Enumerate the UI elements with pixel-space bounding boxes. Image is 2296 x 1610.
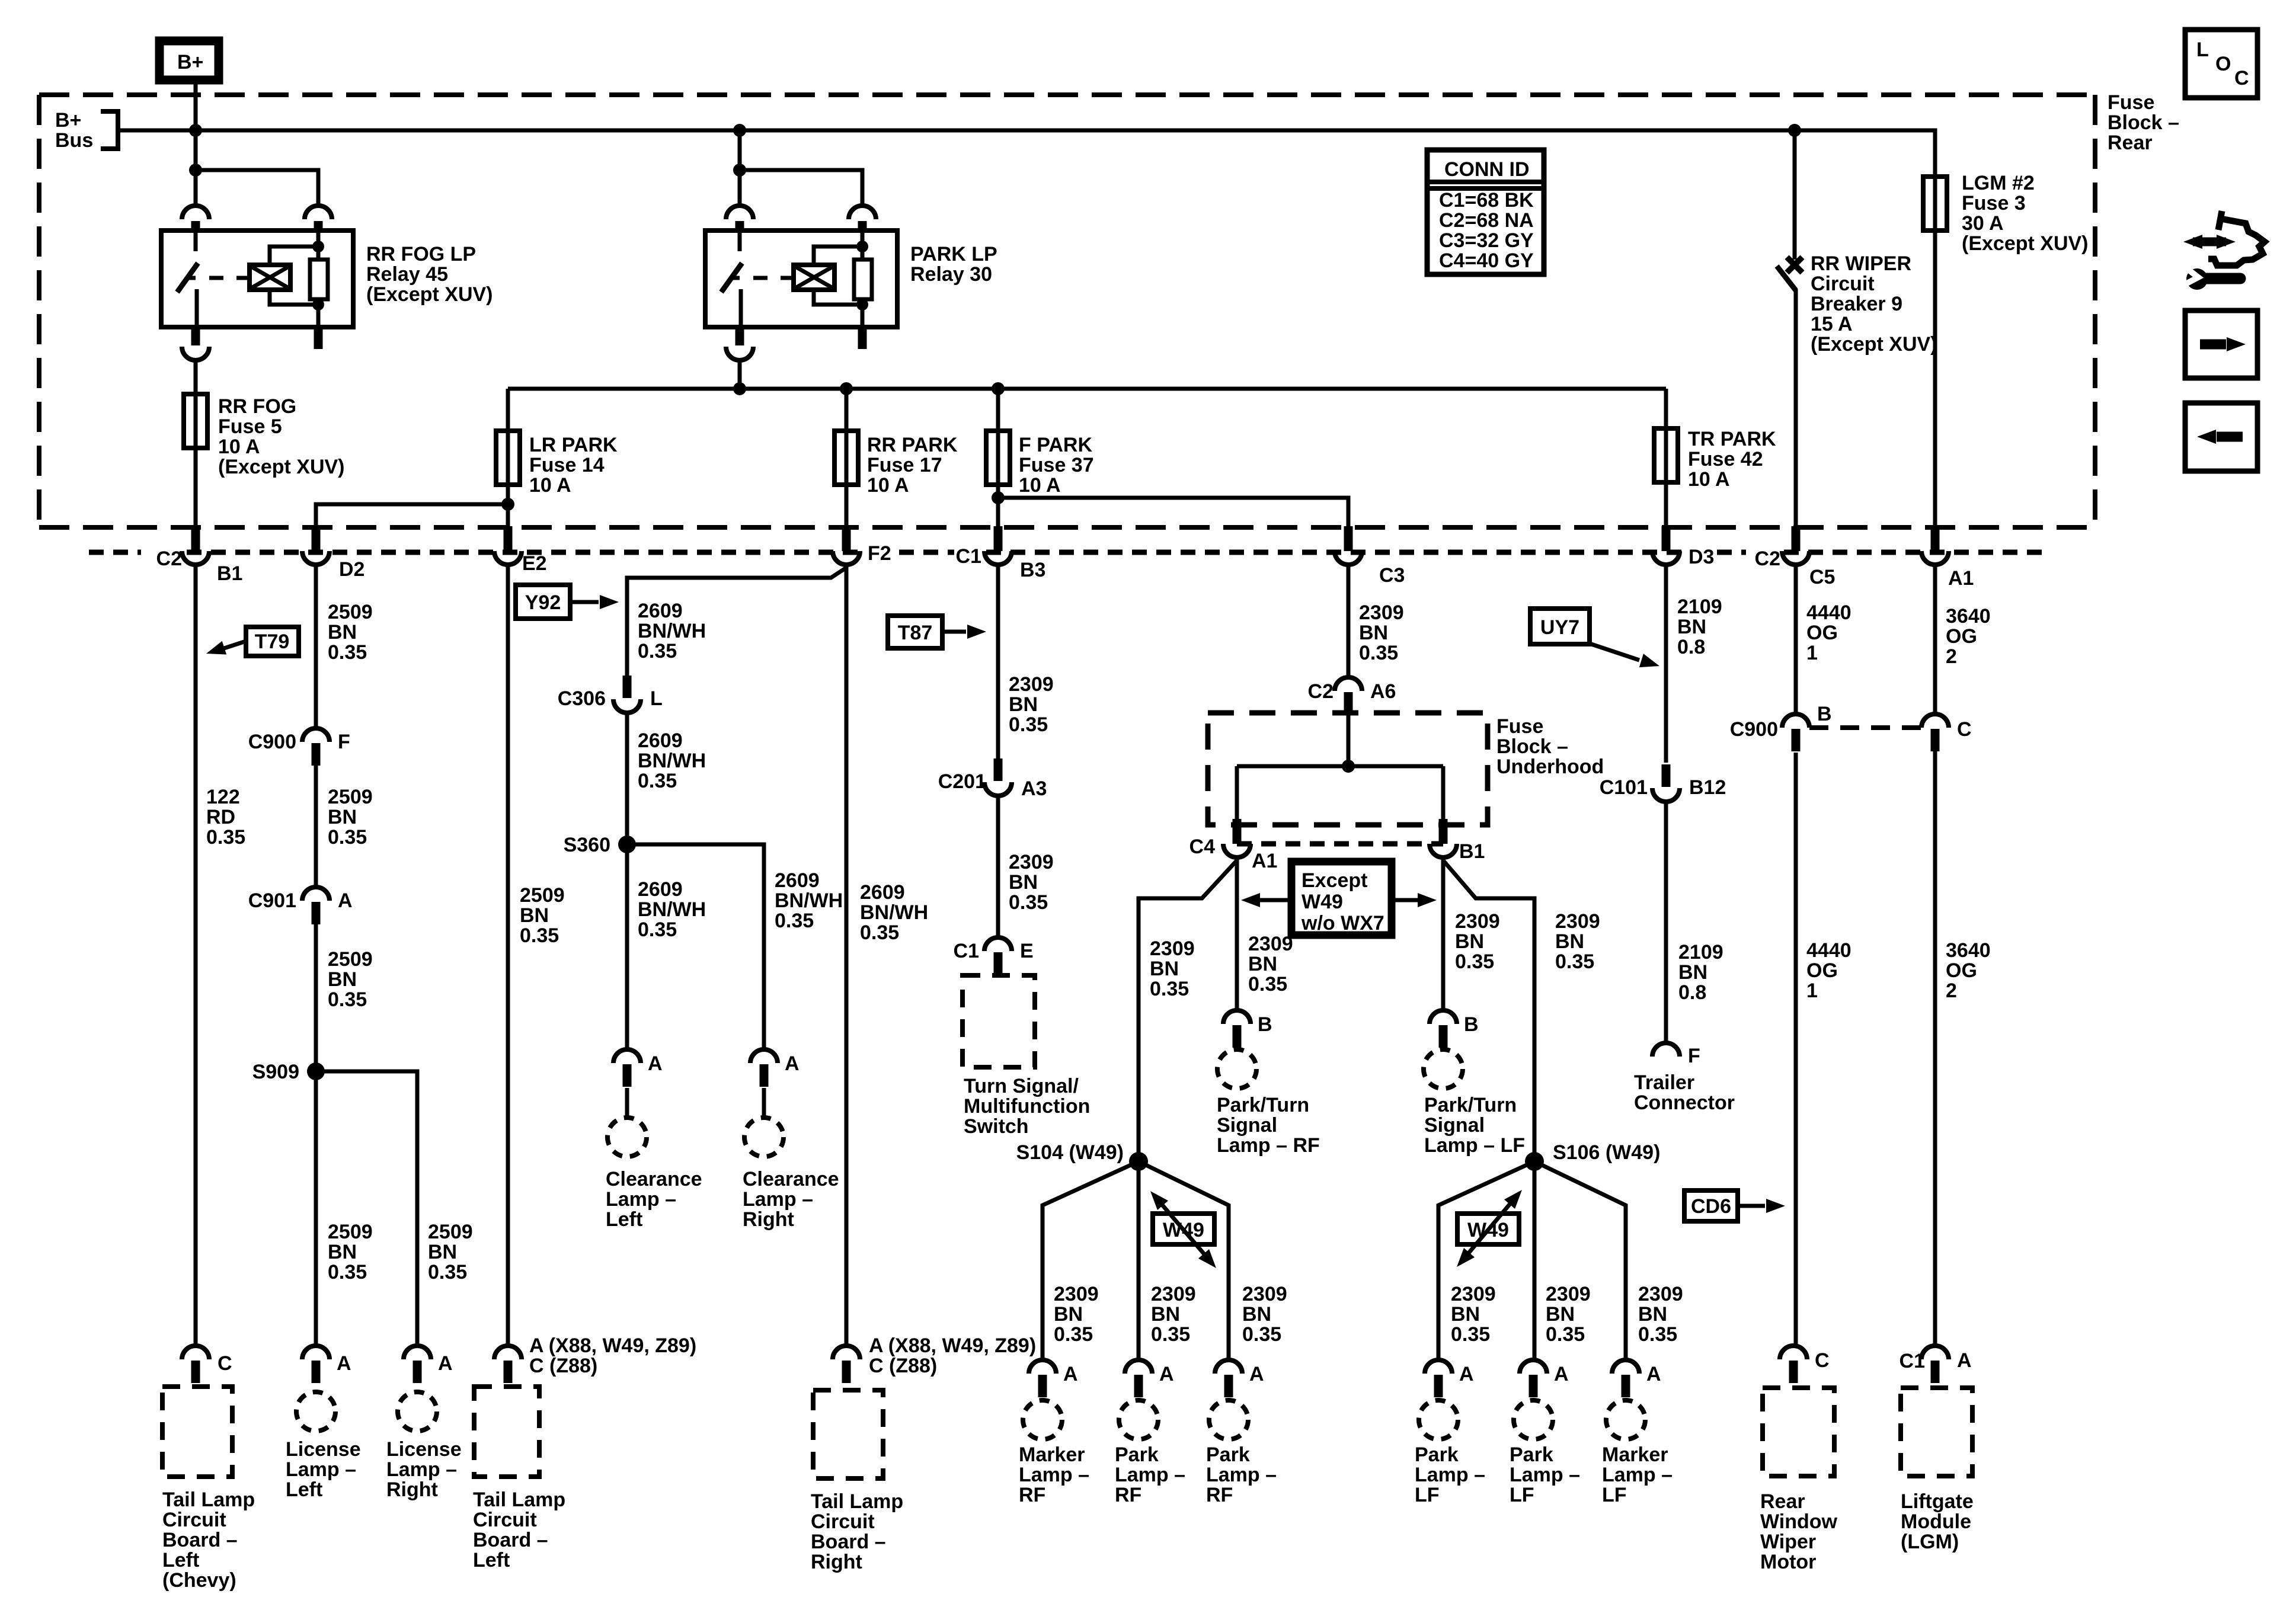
wire branch to C3 <box>998 498 1348 526</box>
svg-text:L: L <box>650 687 663 710</box>
svg-text:Lamp – RF: Lamp – RF <box>1217 1134 1320 1157</box>
svg-text:2309: 2309 <box>1054 1283 1099 1305</box>
svg-text:BN/WH: BN/WH <box>638 620 706 642</box>
svg-text:C900: C900 <box>1730 718 1778 741</box>
wire A6 into underhood <box>1347 715 1351 766</box>
wire B3 down <box>996 565 1000 763</box>
connector pin D3 <box>1652 526 1680 565</box>
svg-text:C5: C5 <box>1809 566 1835 588</box>
fuse LR PARK Fuse 14 <box>496 431 520 485</box>
W49 arrow right <box>1464 1198 1515 1259</box>
svg-text:Trailer: Trailer <box>1634 1071 1694 1094</box>
svg-text:Park: Park <box>1510 1443 1553 1466</box>
connector A liftgate <box>1921 1346 1949 1383</box>
svg-text:C4: C4 <box>1189 836 1216 858</box>
svg-text:RR FOG: RR FOG <box>218 395 296 418</box>
svg-text:C2: C2 <box>156 548 182 570</box>
svg-text:2309: 2309 <box>1242 1283 1287 1305</box>
svg-text:0.35: 0.35 <box>328 826 367 849</box>
svg-text:LGM #2: LGM #2 <box>1962 172 2035 194</box>
svg-text:Relay 45: Relay 45 <box>366 263 448 286</box>
wire underhood left leg <box>1235 766 1239 825</box>
wire fuse14 down <box>506 485 510 526</box>
node bus-breaker <box>1788 124 1801 137</box>
svg-text:BN/WH: BN/WH <box>638 898 706 921</box>
wire rail to fuse37 <box>996 389 1000 431</box>
svg-text:0.35: 0.35 <box>775 910 814 932</box>
wire fuse5 to B1 <box>194 448 198 526</box>
connector tail lamp right <box>833 1346 860 1383</box>
wire rail to fuse14 <box>506 389 510 431</box>
svg-text:2609: 2609 <box>860 881 905 904</box>
wire A1 down <box>1933 565 1937 714</box>
wire E2 down <box>506 565 510 1346</box>
connector pin C5 <box>1782 526 1809 565</box>
svg-text:Board –: Board – <box>473 1529 548 1551</box>
svg-text:Lamp –: Lamp – <box>1510 1464 1580 1486</box>
svg-text:Fuse 37: Fuse 37 <box>1019 454 1094 476</box>
wire C900B down <box>1794 753 1798 1346</box>
wire D2 down <box>314 565 318 728</box>
wire S104 middle branch <box>1137 1161 1141 1361</box>
wire rail to fuse17 <box>845 389 849 431</box>
svg-text:(Except XUV): (Except XUV) <box>1811 333 1937 356</box>
svg-text:BN/WH: BN/WH <box>860 901 928 924</box>
svg-text:BN: BN <box>1638 1303 1667 1326</box>
connector C900 F <box>302 728 330 766</box>
wire rail to fuse42 <box>1664 389 1668 428</box>
wire fuse17 to F2 <box>845 485 849 526</box>
splice S360 <box>618 836 636 853</box>
svg-text:3640: 3640 <box>1946 605 1991 628</box>
svg-text:Switch: Switch <box>964 1115 1029 1138</box>
node rail-fuse37 <box>992 382 1005 395</box>
svg-text:B+: B+ <box>55 109 81 132</box>
svg-text:2509: 2509 <box>328 786 373 808</box>
svg-text:Right: Right <box>386 1478 438 1501</box>
svg-text:0.35: 0.35 <box>328 1261 367 1283</box>
svg-text:Fuse 42: Fuse 42 <box>1688 448 1763 470</box>
svg-text:A: A <box>1554 1363 1569 1385</box>
svg-text:C (Z88): C (Z88) <box>869 1355 937 1377</box>
svg-text:0.35: 0.35 <box>1248 973 1287 996</box>
svg-text:w/o WX7: w/o WX7 <box>1301 912 1384 934</box>
wire to clearance right bulb <box>762 1088 766 1118</box>
Fuse Block - Underhood dashed box <box>1208 713 1488 825</box>
fuse LGM #2 Fuse 3 <box>1923 177 1947 231</box>
svg-text:Fuse: Fuse <box>2108 91 2154 114</box>
svg-text:2309: 2309 <box>1248 933 1293 955</box>
svg-text:T79: T79 <box>255 630 290 653</box>
svg-text:122: 122 <box>206 786 240 808</box>
svg-text:A1: A1 <box>1252 850 1277 872</box>
svg-text:BN: BN <box>1054 1303 1083 1326</box>
svg-text:B1: B1 <box>217 562 242 585</box>
relay PARK LP Relay 30 <box>705 206 897 360</box>
svg-text:RD: RD <box>206 806 235 828</box>
svg-text:10 A: 10 A <box>218 436 260 458</box>
svg-text:Right: Right <box>811 1551 862 1573</box>
wire S104 left branch <box>1043 1161 1139 1361</box>
svg-text:Wiper: Wiper <box>1760 1531 1816 1553</box>
svg-text:(Except XUV): (Except XUV) <box>218 456 345 478</box>
svg-text:Lamp –: Lamp – <box>1206 1464 1277 1486</box>
svg-text:A: A <box>648 1052 663 1075</box>
connector A park LF 2 <box>1520 1360 1547 1397</box>
svg-text:Block –: Block – <box>2108 111 2179 134</box>
svg-text:TR PARK: TR PARK <box>1688 428 1776 450</box>
svg-text:BN: BN <box>1009 871 1038 894</box>
svg-text:2509: 2509 <box>428 1221 473 1243</box>
svg-text:2309: 2309 <box>1009 673 1054 696</box>
underhood dotted connector line <box>1237 841 1443 847</box>
Except W49 right arrow <box>1392 898 1418 902</box>
Park Lamp LF bulb 1 <box>1419 1400 1458 1439</box>
wire C901 to S909 <box>314 924 318 1071</box>
svg-text:0.35: 0.35 <box>638 770 677 792</box>
svg-text:Circuit: Circuit <box>1811 273 1875 295</box>
connector pin B1 right <box>1430 819 1457 857</box>
svg-text:Left: Left <box>473 1549 510 1571</box>
svg-text:License: License <box>386 1438 462 1461</box>
svg-text:Left: Left <box>606 1208 642 1231</box>
connector A clearance left <box>613 1049 641 1087</box>
svg-text:1: 1 <box>1806 642 1818 664</box>
connector pin A1r <box>1921 526 1949 565</box>
svg-text:BN/WH: BN/WH <box>638 750 706 772</box>
svg-text:Rear: Rear <box>1760 1490 1805 1513</box>
svg-text:A: A <box>1063 1363 1078 1385</box>
connector pin E2 <box>494 526 522 565</box>
svg-text:Circuit: Circuit <box>162 1509 226 1531</box>
LOC legend box <box>2185 30 2257 98</box>
svg-text:0.35: 0.35 <box>638 918 677 941</box>
svg-text:Marker: Marker <box>1602 1443 1668 1466</box>
svg-text:BN: BN <box>1009 693 1038 716</box>
svg-text:0.35: 0.35 <box>1242 1323 1281 1346</box>
Park Lamp RF bulb 2 <box>1209 1400 1248 1439</box>
node rail-relay30 <box>733 382 746 395</box>
svg-text:2309: 2309 <box>1359 601 1404 624</box>
svg-text:B3: B3 <box>1020 559 1045 581</box>
wire to clearance left bulb <box>625 1088 629 1118</box>
connector A park RF 2 <box>1215 1360 1242 1397</box>
wire A1 diag to S104 <box>1139 860 1237 1161</box>
connector pin C3 <box>1335 526 1362 565</box>
svg-text:0.8: 0.8 <box>1677 636 1705 658</box>
relay RR FOG LP Relay 45 <box>161 206 353 360</box>
svg-text:C306: C306 <box>558 687 606 710</box>
svg-text:D2: D2 <box>339 558 364 581</box>
svg-text:0.35: 0.35 <box>1638 1323 1677 1346</box>
svg-text:10 A: 10 A <box>867 474 909 497</box>
underhood bus bar <box>1237 764 1443 769</box>
svg-text:Lamp –: Lamp – <box>1019 1464 1089 1486</box>
node relay30 branch <box>733 164 746 177</box>
connector A license right <box>404 1346 431 1383</box>
svg-text:0.35: 0.35 <box>1359 642 1398 664</box>
svg-text:Connector: Connector <box>1634 1092 1735 1114</box>
svg-text:OG: OG <box>1806 622 1838 644</box>
Park Lamp LF bulb 2 <box>1514 1400 1553 1439</box>
svg-text:LF: LF <box>1602 1484 1627 1506</box>
svg-text:(Chevy): (Chevy) <box>162 1569 236 1592</box>
svg-text:Right: Right <box>743 1208 794 1231</box>
wire S104 right branch <box>1139 1161 1229 1361</box>
svg-text:Y92: Y92 <box>525 591 561 614</box>
svg-text:C2=68 NA: C2=68 NA <box>1439 209 1534 232</box>
svg-text:A (X88, W49, Z89): A (X88, W49, Z89) <box>529 1334 696 1357</box>
Clearance Lamp Left bulb <box>607 1118 647 1157</box>
svg-text:Left: Left <box>286 1478 322 1501</box>
wire F2 jog to clearance <box>627 568 846 676</box>
wire S106 right branch <box>1534 1161 1626 1361</box>
wire C101 to trailer <box>1664 802 1668 1043</box>
svg-text:Fuse 17: Fuse 17 <box>867 454 942 476</box>
wire fuse3 to A1 <box>1933 231 1937 526</box>
Park Lamp RF bulb 1 <box>1119 1400 1158 1439</box>
svg-text:E2: E2 <box>522 552 547 575</box>
wire branch to D2 <box>316 504 508 526</box>
svg-text:L: L <box>2196 39 2209 61</box>
svg-text:CD6: CD6 <box>1691 1195 1731 1218</box>
node underhood split <box>1342 760 1355 773</box>
wire S360 branch right <box>627 844 764 1049</box>
svg-text:0.35: 0.35 <box>1150 978 1189 1000</box>
C900 B-C dashed link <box>1809 725 1921 730</box>
svg-text:Lamp –: Lamp – <box>1602 1464 1673 1486</box>
connector pin F2 <box>833 526 860 565</box>
svg-text:C1: C1 <box>954 940 979 962</box>
svg-text:3640: 3640 <box>1946 939 1991 962</box>
svg-text:2309: 2309 <box>1546 1283 1591 1305</box>
svg-text:A6: A6 <box>1370 680 1396 703</box>
svg-text:2509: 2509 <box>328 601 373 623</box>
connector A park LF 1 <box>1425 1360 1452 1397</box>
svg-text:A: A <box>337 1352 351 1375</box>
License Lamp Right bulb <box>398 1392 437 1431</box>
svg-text:A3: A3 <box>1021 777 1047 800</box>
svg-text:2509: 2509 <box>328 948 373 971</box>
connector A park RF 1 <box>1125 1360 1152 1397</box>
svg-text:B1: B1 <box>1459 840 1485 863</box>
svg-text:Breaker 9: Breaker 9 <box>1811 293 1902 315</box>
svg-text:2609: 2609 <box>638 600 683 622</box>
svg-text:BN: BN <box>1150 958 1179 980</box>
svg-text:F: F <box>1688 1045 1700 1067</box>
svg-text:Tail Lamp: Tail Lamp <box>811 1490 903 1513</box>
svg-text:Tail Lamp: Tail Lamp <box>473 1489 565 1511</box>
svg-text:BN/WH: BN/WH <box>775 889 843 912</box>
Liftgate Module box <box>1901 1388 1972 1476</box>
svg-text:BN: BN <box>1455 930 1484 953</box>
svg-text:C2: C2 <box>1755 548 1780 570</box>
wire D3 down <box>1664 565 1668 763</box>
svg-text:OG: OG <box>1946 625 1977 648</box>
W49 arrow left <box>1157 1199 1209 1260</box>
W49 callout box right <box>1457 1214 1519 1244</box>
wire S909 down <box>314 1071 318 1346</box>
wire fuse42 to D3 <box>1664 482 1668 526</box>
wire S909 branch right <box>316 1071 417 1346</box>
svg-text:2309: 2309 <box>1150 937 1195 960</box>
svg-text:BN: BN <box>1151 1303 1180 1326</box>
svg-text:A: A <box>438 1352 453 1375</box>
svg-text:Rear: Rear <box>2108 132 2153 154</box>
wire B1 down <box>194 565 198 1346</box>
svg-text:LR PARK: LR PARK <box>529 434 618 456</box>
W49 callout box left <box>1153 1214 1214 1244</box>
svg-text:Signal: Signal <box>1217 1114 1277 1137</box>
svg-text:0.35: 0.35 <box>1009 891 1048 914</box>
svg-text:A: A <box>1957 1349 1972 1372</box>
connector C1 E <box>984 937 1012 975</box>
svg-text:Park/Turn: Park/Turn <box>1217 1094 1309 1116</box>
svg-text:F PARK: F PARK <box>1019 434 1092 456</box>
svg-text:15 A: 15 A <box>1811 313 1853 335</box>
svg-text:A: A <box>1459 1363 1474 1385</box>
svg-text:2609: 2609 <box>638 878 683 901</box>
CD6 arrow <box>1738 1204 1765 1208</box>
connector pin D2 <box>302 526 330 565</box>
svg-text:F: F <box>338 731 350 753</box>
svg-text:0.35: 0.35 <box>1455 950 1494 973</box>
svg-text:S106 (W49): S106 (W49) <box>1553 1141 1660 1164</box>
Park/Turn Signal Lamp RF bulb <box>1217 1049 1256 1089</box>
connector A marker RF <box>1029 1360 1056 1397</box>
svg-text:Signal: Signal <box>1424 1114 1485 1137</box>
Except W49 left arrow <box>1259 898 1291 902</box>
svg-text:BN: BN <box>1248 953 1277 975</box>
wire breaker feed <box>1793 132 1797 260</box>
svg-text:C: C <box>1957 718 1972 741</box>
wire relay30 out to rail <box>738 360 742 389</box>
svg-text:10 A: 10 A <box>1019 474 1061 497</box>
svg-text:D3: D3 <box>1689 546 1714 568</box>
svg-text:C2: C2 <box>1308 680 1334 703</box>
svg-text:2509: 2509 <box>520 884 565 907</box>
svg-text:B12: B12 <box>1689 776 1726 799</box>
svg-text:Lamp –: Lamp – <box>1415 1464 1485 1486</box>
svg-text:2309: 2309 <box>1009 851 1054 873</box>
wire C5 down <box>1794 565 1798 714</box>
splice S909 <box>307 1062 325 1080</box>
svg-text:C901: C901 <box>248 889 296 912</box>
svg-text:BN: BN <box>1678 961 1707 984</box>
License Lamp Left bulb <box>296 1392 335 1431</box>
svg-text:Park: Park <box>1415 1443 1459 1466</box>
svg-text:(LGM): (LGM) <box>1901 1531 1959 1553</box>
svg-text:Lamp –: Lamp – <box>286 1458 356 1481</box>
connector C306 L <box>613 676 641 713</box>
svg-text:C900: C900 <box>248 731 296 753</box>
node bus-relay2 <box>733 124 746 137</box>
svg-text:2309: 2309 <box>1555 910 1600 933</box>
connector A clearance right <box>750 1049 778 1087</box>
wire underhood right leg <box>1441 766 1446 825</box>
svg-text:0.35: 0.35 <box>860 921 899 944</box>
svg-text:A: A <box>1249 1363 1264 1385</box>
connector A license left <box>302 1346 330 1383</box>
svg-text:Lamp –: Lamp – <box>606 1188 676 1211</box>
wire C900 to C901 <box>314 766 318 887</box>
svg-text:BN: BN <box>328 968 357 991</box>
svg-text:C201: C201 <box>938 770 986 793</box>
svg-text:Motor: Motor <box>1760 1551 1816 1573</box>
connector pin B1 <box>182 526 209 565</box>
svg-text:Fuse: Fuse <box>1496 715 1543 738</box>
connector F trailer <box>1652 1043 1680 1057</box>
svg-text:RF: RF <box>1115 1484 1141 1506</box>
svg-text:Except: Except <box>1302 869 1368 892</box>
svg-text:2609: 2609 <box>638 729 683 752</box>
connector pin B3 <box>984 526 1012 565</box>
svg-text:2509: 2509 <box>328 1221 373 1243</box>
Marker Lamp RF bulb <box>1023 1400 1062 1439</box>
inline harness dotted line <box>89 550 2051 555</box>
svg-text:C: C <box>218 1352 232 1375</box>
svg-text:0.35: 0.35 <box>1555 950 1594 973</box>
wire C306 to S360 <box>625 713 629 844</box>
svg-text:Lamp – LF: Lamp – LF <box>1424 1134 1525 1157</box>
svg-text:Lamp –: Lamp – <box>743 1188 813 1211</box>
svg-text:Circuit: Circuit <box>811 1510 875 1533</box>
wire F2 down <box>845 565 849 1346</box>
svg-text:0.8: 0.8 <box>1678 981 1706 1004</box>
fuse F PARK Fuse 37 <box>986 431 1010 485</box>
svg-text:BN: BN <box>1359 622 1388 644</box>
Fuse Block - Rear dashed border <box>39 95 2095 527</box>
svg-text:2: 2 <box>1946 980 1957 1002</box>
svg-text:BN: BN <box>520 904 549 927</box>
park rail wire <box>508 387 1666 391</box>
svg-text:LF: LF <box>1415 1484 1440 1506</box>
svg-text:A: A <box>338 889 353 912</box>
svg-text:B+: B+ <box>177 51 203 73</box>
wire B+ box to bus <box>194 84 198 132</box>
svg-text:Circuit: Circuit <box>473 1509 537 1531</box>
svg-text:B: B <box>1464 1013 1479 1036</box>
svg-text:BN: BN <box>1677 616 1706 638</box>
connector C101 B12 <box>1652 764 1680 802</box>
svg-text:2109: 2109 <box>1678 941 1723 964</box>
svg-text:BN: BN <box>1546 1303 1575 1326</box>
wire relay45 out to fuse5 <box>194 360 198 394</box>
Except W49 box <box>1291 862 1392 935</box>
circuit breaker 9 contact X <box>1787 257 1802 273</box>
wire C down to liftgate <box>1933 751 1937 1346</box>
svg-text:Multifunction: Multifunction <box>964 1095 1090 1118</box>
svg-text:Left: Left <box>162 1549 199 1571</box>
svg-text:0.35: 0.35 <box>1546 1323 1585 1346</box>
wire A1 to lamp RF <box>1235 859 1239 1011</box>
connector C tail lamp left <box>182 1346 209 1383</box>
svg-text:0.35: 0.35 <box>520 924 559 947</box>
wire relay45 coil feed <box>196 170 318 206</box>
svg-text:0.35: 0.35 <box>638 640 677 662</box>
arrow box right <box>2185 311 2257 378</box>
UY7 arrow <box>1590 644 1639 660</box>
svg-text:Liftgate: Liftgate <box>1901 1490 1974 1513</box>
connector A marker LF <box>1612 1360 1639 1397</box>
svg-text:0.35: 0.35 <box>1009 713 1048 736</box>
svg-text:B: B <box>1258 1013 1272 1036</box>
svg-text:0.35: 0.35 <box>206 826 245 849</box>
svg-text:BN: BN <box>428 1241 457 1263</box>
svg-text:C101: C101 <box>1600 776 1648 799</box>
node rail-fuse17 <box>840 382 853 395</box>
svg-text:Park: Park <box>1206 1443 1250 1466</box>
